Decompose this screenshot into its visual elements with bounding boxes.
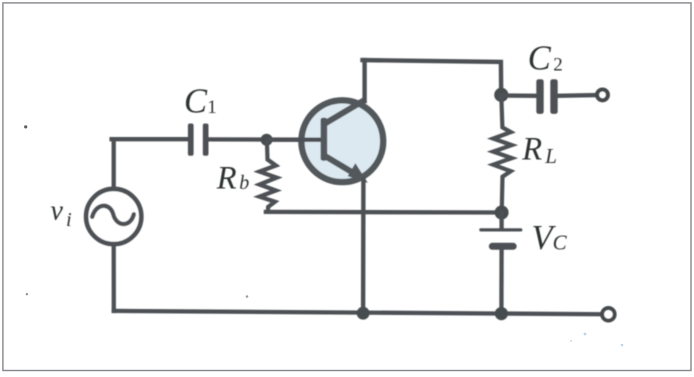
- label Rb: [216, 161, 250, 197]
- wire node to C2: [501, 93, 536, 98]
- scan speck artifacts: [24, 125, 623, 346]
- svg-text:2: 2: [553, 55, 563, 76]
- svg-text:C: C: [528, 39, 552, 77]
- label VC: [532, 219, 568, 257]
- svg-text:R: R: [521, 131, 542, 167]
- transistor Q1: [267, 100, 383, 183]
- resistor RL: [493, 95, 512, 213]
- svg-text:C: C: [184, 82, 208, 120]
- label vi: [51, 196, 73, 232]
- source vi: [86, 189, 141, 244]
- terminal output top (open circle): [597, 90, 608, 101]
- label C2: [528, 39, 563, 77]
- node collector / C2 junction: [494, 88, 508, 102]
- node bias junction (Rb / RL / battery +): [495, 206, 509, 220]
- wire top rail: [363, 60, 502, 95]
- resistor Rb: [260, 140, 277, 212]
- wire collector up: [362, 60, 366, 101]
- battery VC: [481, 213, 521, 314]
- capacitor C2: [536, 79, 557, 114]
- wire C1 to base: [209, 137, 322, 142]
- svg-text:b: b: [239, 172, 249, 194]
- wire Rb to VC node (bias line, crosses emitter with no junction): [266, 210, 502, 215]
- svg-text:i: i: [66, 209, 72, 231]
- svg-text:1: 1: [207, 97, 217, 118]
- label RL: [521, 131, 557, 168]
- label C1: [184, 82, 217, 120]
- node base junction: [261, 134, 273, 146]
- svg-text:R: R: [216, 161, 237, 197]
- wire C2 to output terminal: [558, 93, 595, 98]
- wire input top (source top to C1): [112, 139, 189, 188]
- node battery / bottom rail: [495, 307, 508, 320]
- wire source bottom: [112, 246, 116, 312]
- wire bottom rail: [114, 311, 601, 314]
- node emitter / bottom rail: [357, 307, 370, 320]
- svg-text:v: v: [51, 196, 64, 227]
- svg-text:C: C: [553, 230, 568, 254]
- svg-text:L: L: [544, 144, 557, 168]
- wire emitter down: [361, 180, 366, 314]
- capacitor C1: [188, 124, 209, 156]
- terminal output bottom (open circle): [602, 308, 615, 321]
